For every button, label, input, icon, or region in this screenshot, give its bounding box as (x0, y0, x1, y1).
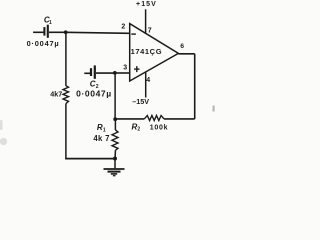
resistor 4k7 (left) (63, 86, 69, 104)
wire bottom ground rail (65, 158, 115, 160)
R1 value label (93, 134, 109, 143)
wire R2 to output feedback corner (164, 118, 195, 120)
svg-text:2: 2 (121, 24, 125, 31)
svg-text:+15V: +15V (136, 1, 157, 8)
svg-text:7: 7 (148, 28, 152, 35)
svg-text:1741ÇG: 1741ÇG (131, 47, 163, 56)
wire node B to op-amp pin 3 (115, 72, 130, 74)
R2 label (132, 122, 141, 132)
svg-text:1: 1 (103, 128, 106, 134)
wire node A down to 4k7 resistor (65, 32, 67, 86)
+15V supply label (136, 1, 157, 8)
svg-text:–15V: –15V (132, 97, 149, 106)
ground (104, 159, 125, 176)
R2 value label (150, 125, 169, 132)
C2 value label (76, 88, 112, 98)
capacitor C2 (84, 65, 95, 78)
op-amp inverting input minus sign (131, 33, 136, 35)
faint page artifact right edge (213, 106, 215, 112)
node C junction (113, 117, 117, 121)
wire pin 4 to -15V (145, 72, 147, 98)
svg-text:0·0047µ: 0·0047µ (27, 39, 60, 48)
svg-text:4: 4 (146, 77, 150, 84)
pin 7 label (148, 28, 152, 35)
op-amp U1 1741CG triangle (130, 24, 179, 81)
wire 4k7 down to ground rail (65, 104, 67, 160)
svg-text:100k: 100k (150, 125, 169, 132)
wire input stub (33, 31, 43, 33)
wire C2 to node B (96, 72, 115, 74)
C1 value label (27, 39, 60, 48)
capacitor C1 (44, 25, 47, 38)
R1 label (97, 123, 106, 133)
label C1 (44, 15, 52, 26)
resistor R2 (144, 116, 164, 121)
faint page artifact left edge (0, 120, 7, 145)
op-amp non-inverting input plus sign (134, 66, 139, 72)
node A junction (64, 30, 68, 34)
svg-text:6: 6 (180, 43, 184, 50)
wire pin 7 to +15V (145, 9, 147, 33)
wire node A to op-amp pin 2 (66, 32, 130, 33)
wire C1 to node A (49, 31, 65, 33)
wire node C to R2 (115, 118, 144, 120)
svg-text:0·0047µ: 0·0047µ (76, 88, 112, 98)
4k7 (left) value label (50, 90, 62, 99)
pin 4 label (146, 77, 150, 84)
svg-text:3: 3 (123, 64, 127, 71)
op-amp type label 1741CG (131, 47, 163, 56)
wire node B down to node C (114, 73, 116, 119)
svg-text:2: 2 (137, 127, 140, 133)
wire output pin 6 (178, 53, 194, 55)
pin 2 label (121, 24, 125, 31)
-15V supply label (132, 97, 149, 106)
svg-text:4k7: 4k7 (50, 90, 62, 99)
label C2 (90, 79, 99, 90)
node B junction (113, 71, 117, 75)
ground junction node (113, 157, 117, 161)
svg-text:4k 7: 4k 7 (93, 134, 109, 143)
wire output down to R2 (194, 54, 196, 119)
pin 3 label (123, 64, 127, 71)
pin 6 label (180, 43, 184, 50)
resistor R1 (112, 119, 118, 158)
svg-text:1: 1 (49, 20, 52, 26)
